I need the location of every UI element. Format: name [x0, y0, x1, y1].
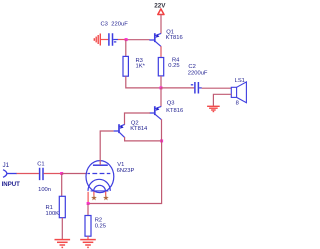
svg-text:KT816: KT816 — [166, 35, 183, 41]
wire C3 to node A — [118, 39, 126, 41]
power port 22V — [154, 3, 166, 15]
node K junction — [87, 202, 90, 205]
node A junction — [125, 38, 128, 41]
svg-text:C2: C2 — [188, 64, 195, 70]
svg-text:8: 8 — [236, 101, 239, 107]
wire grid node to R1 — [61, 174, 63, 197]
svg-text:2200uF: 2200uF — [188, 71, 208, 77]
ground (below R2) — [80, 240, 96, 248]
svg-text:C3: C3 — [101, 21, 108, 27]
svg-text:INPUT: INPUT — [2, 181, 21, 188]
transistor Q2 — [114, 121, 148, 138]
svg-text:0.25: 0.25 — [95, 223, 106, 229]
capacitor C3 — [101, 21, 129, 45]
svg-text:100K: 100K — [46, 211, 60, 217]
grid node junction — [60, 172, 63, 175]
wire R4 to output rail — [160, 76, 162, 88]
wire R2 to ground — [87, 236, 89, 239]
cathode arc — [88, 179, 110, 191]
wire feedback rail — [88, 141, 162, 204]
svg-text:0.25: 0.25 — [168, 63, 179, 69]
wire cathode to node K — [87, 192, 89, 204]
resistor R1 — [46, 196, 66, 217]
anode plate — [93, 164, 108, 166]
wire Q1 collector to R4 — [160, 46, 162, 57]
svg-text:100n: 100n — [38, 187, 51, 193]
svg-text:22V: 22V — [154, 3, 166, 10]
wire Q3 collector down — [161, 119, 163, 141]
wire R3 to output rail — [126, 76, 161, 88]
tube V1 — [86, 161, 134, 193]
wire anode to Q2 base — [100, 131, 113, 165]
wire node A to Q1 base — [126, 39, 150, 41]
svg-text:KT816: KT816 — [166, 108, 183, 114]
heater pin stub left — [93, 192, 95, 196]
wire grid node to tube grid — [62, 173, 88, 175]
wire output node to Q3 emitter — [160, 88, 162, 107]
svg-text:220uF: 220uF — [111, 21, 128, 27]
ground (at speaker) — [207, 106, 220, 111]
heater arc — [94, 185, 106, 191]
capacitor C2 — [188, 64, 208, 93]
resistor R3 — [123, 56, 146, 76]
svg-text:1K*: 1K* — [136, 64, 146, 70]
svg-text:J1: J1 — [3, 162, 10, 169]
resistor R4 — [158, 58, 180, 76]
wire node A to R3 — [125, 40, 127, 57]
wire J1 to C1 — [17, 173, 39, 175]
resistor R2 — [85, 216, 106, 237]
heater star left — [91, 195, 97, 200]
output node junction — [160, 86, 163, 89]
wire Q2 collector to rail node — [125, 137, 162, 141]
cathode base line — [91, 190, 109, 192]
wire ground to C3 — [101, 39, 108, 41]
heater pin stub right — [105, 192, 107, 196]
svg-text:KT814: KT814 — [130, 126, 148, 132]
connector J1 — [2, 162, 21, 188]
capacitor C1 — [37, 162, 51, 194]
wire C2 to speaker — [202, 87, 232, 89]
wire speaker to ground — [213, 94, 231, 106]
svg-text:Q3: Q3 — [167, 101, 175, 107]
speaker LS1 — [231, 78, 246, 107]
wire Q3 base to Q2 — [125, 113, 151, 125]
heater star right — [103, 195, 109, 200]
grid dashes — [88, 173, 111, 175]
svg-text:C1: C1 — [37, 162, 44, 168]
transistor Q1 — [149, 29, 182, 46]
ground (at C3) — [94, 34, 100, 46]
wire C1 to grid node — [44, 173, 62, 175]
wire output rail to C2 — [161, 87, 194, 89]
wire R1 to ground — [61, 218, 63, 239]
svg-text:LS1: LS1 — [235, 78, 245, 84]
wire node K to R2 — [87, 204, 89, 216]
wire 22V to Q1 emitter — [160, 14, 162, 33]
ground (below R1) — [55, 240, 71, 248]
rail node junction — [160, 139, 163, 142]
svg-text:6N23P: 6N23P — [117, 168, 135, 174]
transistor Q3 — [149, 101, 183, 120]
